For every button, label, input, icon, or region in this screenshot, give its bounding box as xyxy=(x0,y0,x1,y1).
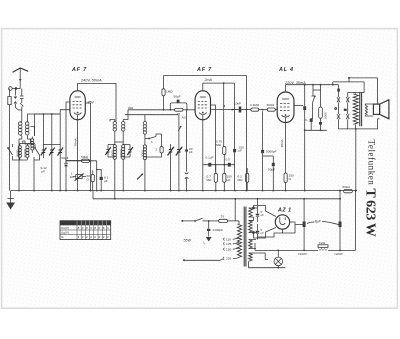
band filter coil 5000 xyxy=(18,144,27,161)
pilot lamp xyxy=(274,250,283,269)
power transformer heater winding xyxy=(249,240,256,249)
main ground bus xyxy=(11,190,357,192)
wire coil secondary top to grid rail xyxy=(28,114,61,136)
wire cathode AF7-1 xyxy=(77,115,79,191)
tone cap C left xyxy=(335,97,341,129)
IF transformer T1 primary top xyxy=(113,120,116,135)
wire cathode AL4 xyxy=(285,118,287,174)
svg-text:5000: 5000 xyxy=(16,149,20,156)
svg-text:kΩ: kΩ xyxy=(227,178,232,182)
feedthrough cap bottom xyxy=(256,224,264,238)
resistor 60k on bus xyxy=(339,185,357,199)
label ~220V xyxy=(334,252,344,256)
wire grid rail xyxy=(35,113,61,144)
cap 50nF blob xyxy=(233,146,244,191)
wire screen riser xyxy=(96,161,101,191)
svg-text:0000: 0000 xyxy=(324,112,328,119)
resistor 1M vertical xyxy=(162,76,173,110)
label AL4 xyxy=(278,67,294,73)
label 78mA xyxy=(73,137,77,146)
svg-text:125: 125 xyxy=(226,242,231,246)
fuse 7S xyxy=(208,215,239,223)
svg-text:300Ω: 300Ω xyxy=(267,103,275,107)
trimmer left of IF T1 xyxy=(105,145,115,158)
tuning cap gang 2 xyxy=(176,115,183,191)
svg-text:0.1µF: 0.1µF xyxy=(206,156,214,160)
cap 0.5uF blob xyxy=(226,158,231,167)
trimmer capacitor row left xyxy=(41,145,47,159)
wire anode AL4 top rail xyxy=(286,84,339,92)
svg-text:1MΩ: 1MΩ xyxy=(166,90,173,94)
svg-text:50µF: 50µF xyxy=(62,156,69,160)
output transformer secondary xyxy=(365,104,373,116)
cap tubular mid xyxy=(185,173,189,191)
label 48mA xyxy=(280,138,284,147)
svg-text:2: 2 xyxy=(156,148,158,152)
svg-text:220: 220 xyxy=(226,257,231,261)
cap 2100pF xyxy=(207,221,223,237)
svg-text:AF 7: AF 7 xyxy=(196,67,212,73)
wire grid AF7-1 xyxy=(35,102,71,155)
label 3000 osc xyxy=(141,150,145,157)
label 3000 rotated xyxy=(111,150,115,157)
label 0-12pF xyxy=(41,166,47,174)
svg-text:10nF: 10nF xyxy=(234,102,241,106)
svg-text:3·: 3· xyxy=(305,118,308,122)
power transformer primary xyxy=(237,221,242,258)
wire AZ1 cathode out xyxy=(290,222,304,225)
coil AVC small xyxy=(31,137,34,154)
wire bus2 to mains xyxy=(234,198,236,221)
resistor 750 xyxy=(284,173,294,191)
resistor 50 vertical xyxy=(87,171,95,191)
label 2mA xyxy=(204,78,213,82)
fuse FeW xyxy=(318,241,328,251)
svg-text:AL 4: AL 4 xyxy=(278,67,294,73)
antenna coil L2 secondary xyxy=(25,122,29,136)
svg-text:60kΩ: 60kΩ xyxy=(343,185,351,189)
secondary bus xyxy=(93,191,341,199)
mains switch xyxy=(181,218,208,222)
cap 5000pF blob xyxy=(261,111,277,190)
svg-text:240V, 50mA: 240V, 50mA xyxy=(80,79,102,83)
svg-text:0.5: 0.5 xyxy=(226,158,231,162)
svg-text:MΩ: MΩ xyxy=(207,178,213,182)
wire hor 164.7 xyxy=(203,164,235,166)
oscillator coil xyxy=(143,115,146,191)
switch tone xyxy=(311,90,320,119)
switch osc xyxy=(145,134,162,144)
cap 8uF second xyxy=(339,199,342,250)
svg-text:8µF: 8µF xyxy=(315,220,322,224)
svg-text:MΩ: MΩ xyxy=(216,143,222,147)
svg-text:AF 7: AF 7 xyxy=(71,67,87,73)
trimmer right of IF T1 xyxy=(123,145,133,158)
resistor 20000 vertical xyxy=(319,85,328,122)
svg-text:T 623 W: T 623 W xyxy=(362,188,377,236)
svg-text:55W: 55W xyxy=(184,239,192,243)
svg-text:m: m xyxy=(344,108,347,112)
svg-text:3000: 3000 xyxy=(141,150,145,157)
bottom supply line xyxy=(255,191,356,252)
wire screen AF7-2 xyxy=(211,105,216,172)
switch tick mid xyxy=(178,126,181,131)
vertical 246.4 xyxy=(246,76,248,192)
power transformer core xyxy=(244,207,246,267)
capacitor C ant lower xyxy=(8,89,11,191)
wire antenna branches xyxy=(15,89,21,93)
tuning cap gang 3 xyxy=(168,144,175,191)
ground small xyxy=(204,237,212,245)
label 85V xyxy=(88,101,95,105)
svg-text:Ua(V): Ua(V) xyxy=(61,226,69,230)
Telefunken margin text xyxy=(366,140,376,186)
resistor osc xyxy=(145,134,163,157)
svg-text:≈220V: ≈220V xyxy=(334,252,344,256)
cap 20pF xyxy=(185,110,193,172)
label AF7 xyxy=(71,67,87,73)
resistor grid stopper horizontal xyxy=(175,108,187,119)
junction dots on bus1 xyxy=(18,190,306,200)
IF T1 lower windings xyxy=(113,134,125,164)
power transformer secondary HT bottom xyxy=(249,221,255,234)
svg-text:50pF: 50pF xyxy=(174,95,181,99)
voltage table xyxy=(60,221,111,240)
wire screen AF7-1 xyxy=(66,103,91,191)
output transformer core xyxy=(360,92,362,126)
resistor 50k horizontal xyxy=(66,155,97,163)
capacitor 0.1uF bottom left xyxy=(100,176,109,191)
resistor 150k xyxy=(223,165,232,191)
resistor 300 horizontal xyxy=(259,103,278,111)
antenna socket xyxy=(9,87,21,91)
T 623 W margin text xyxy=(362,188,377,236)
svg-text:AG: AG xyxy=(182,116,187,120)
capacitor 50uF xyxy=(62,156,69,191)
power transformer secondary HT top xyxy=(249,207,255,217)
switch right of filter xyxy=(27,144,39,191)
svg-text:pF: pF xyxy=(189,150,193,154)
svg-text:MΩ: MΩ xyxy=(238,178,244,182)
svg-text:3000: 3000 xyxy=(111,150,115,157)
wire anode AF7-1 xyxy=(78,83,116,121)
svg-text:85V: 85V xyxy=(88,101,95,105)
label 55W xyxy=(184,239,192,243)
label ~100V xyxy=(298,252,308,256)
cap 50pF blob 2 xyxy=(263,156,276,191)
potentiometer 1k xyxy=(70,172,86,181)
svg-text:Telefunken: Telefunken xyxy=(366,140,376,186)
wire AZ1 filament xyxy=(258,225,296,240)
band filter coil 30000 xyxy=(26,144,29,161)
tube AF7 (1) xyxy=(70,91,85,120)
resistor 0.1M horizontal xyxy=(241,103,260,111)
tube AL4 xyxy=(277,92,294,123)
cap 0.1uF blob xyxy=(206,156,214,167)
label AF7 2 xyxy=(196,67,212,73)
loudspeaker xyxy=(373,100,389,119)
svg-text:48mA: 48mA xyxy=(280,138,284,147)
wire speaker bottom loop xyxy=(339,119,380,191)
heater wires xyxy=(249,260,286,268)
capacitor (antenna series, variable) xyxy=(14,92,18,108)
power transformer pilot winding xyxy=(249,253,266,261)
cap 50pF xyxy=(169,95,187,111)
label 5000 xyxy=(16,149,20,156)
trimmer capacitor 3 xyxy=(58,145,64,191)
wire anode AF7-2 xyxy=(164,76,247,112)
svg-text:pF: pF xyxy=(42,170,46,174)
label AZ1 xyxy=(277,207,292,213)
svg-text:2100pF: 2100pF xyxy=(213,228,224,232)
cap 5000 tone xyxy=(304,118,327,131)
svg-text:2mA: 2mA xyxy=(204,78,213,82)
svg-text:1: 1 xyxy=(151,140,153,144)
antenna xyxy=(13,68,29,89)
svg-text:5000pF: 5000pF xyxy=(266,150,277,154)
cap 8uF first xyxy=(303,218,306,250)
cap 0.5u blob right xyxy=(294,85,306,191)
cap 10nF coupling xyxy=(210,102,241,113)
label 30000 rotated xyxy=(119,149,123,158)
resistor 0.2M xyxy=(238,168,249,191)
svg-text:30000: 30000 xyxy=(119,149,123,158)
svg-text:FeW: FeW xyxy=(319,241,325,245)
switch left of filter xyxy=(7,144,20,160)
speaker field / top right wires xyxy=(332,77,378,105)
padder arrow xyxy=(137,173,143,179)
wires secondary to AZ1 xyxy=(249,206,276,239)
svg-text:150: 150 xyxy=(226,248,231,252)
svg-text:50µF: 50µF xyxy=(268,168,275,172)
svg-text:Ug(V): Ug(V) xyxy=(61,230,69,234)
wire long mid horizontals xyxy=(85,107,133,109)
rectifier AZ1 xyxy=(275,215,289,229)
output transformer primary xyxy=(353,93,358,129)
svg-text:±100V: ±100V xyxy=(298,252,308,256)
antenna coil L1 xyxy=(18,122,22,136)
trimmer capacitor 2 xyxy=(49,145,55,191)
svg-text:µF: µF xyxy=(104,179,108,183)
svg-text:7S: 7S xyxy=(221,215,225,219)
label 220V,35mA xyxy=(284,81,306,85)
svg-text:30000: 30000 xyxy=(23,149,27,158)
svg-text:78: 78 xyxy=(177,112,181,116)
wire vertical 328 xyxy=(0,0,1,1)
feedthrough cap top xyxy=(256,198,264,222)
label 240V,50mA xyxy=(80,79,102,83)
svg-text:50kΩ: 50kΩ xyxy=(81,155,89,159)
vertical feeds power to bus xyxy=(303,198,341,218)
IF transformer T1 secondary top xyxy=(122,120,125,135)
label 8uF with leaders xyxy=(307,220,339,225)
mains lower wire xyxy=(183,259,223,261)
taps 110 125 150 xyxy=(223,238,237,261)
svg-text:78mA: 78mA xyxy=(73,137,77,146)
svg-text:kΩ: kΩ xyxy=(70,175,75,179)
svg-text:nF: nF xyxy=(261,213,265,217)
resistor 0.7M xyxy=(207,165,218,191)
wire cathode AF7-2 xyxy=(202,115,204,191)
svg-text:AZ 1: AZ 1 xyxy=(277,207,292,213)
wire IF T1 bottoms xyxy=(115,164,123,199)
vertical 234.6 xyxy=(234,83,236,149)
svg-text:µF: µF xyxy=(239,149,243,153)
resistor 0.75M xyxy=(216,111,226,165)
svg-text:Ia: Ia xyxy=(61,235,64,239)
label 30000 xyxy=(23,149,27,158)
ground xyxy=(6,191,15,210)
capacitor (antenna branch 2) xyxy=(15,92,23,122)
tone cap C right xyxy=(344,93,349,129)
tube AF7 (2) xyxy=(195,91,210,120)
svg-text:0.1MΩ: 0.1MΩ xyxy=(250,103,260,107)
wire coil bottoms xyxy=(19,136,31,191)
svg-text:L: L xyxy=(204,241,206,245)
svg-text:110: 110 xyxy=(226,238,231,242)
wire grid rail AF7-2 xyxy=(125,109,195,115)
svg-text:nF: nF xyxy=(261,231,265,235)
wire IF T1 secondary top to AF7-2 xyxy=(110,110,128,122)
